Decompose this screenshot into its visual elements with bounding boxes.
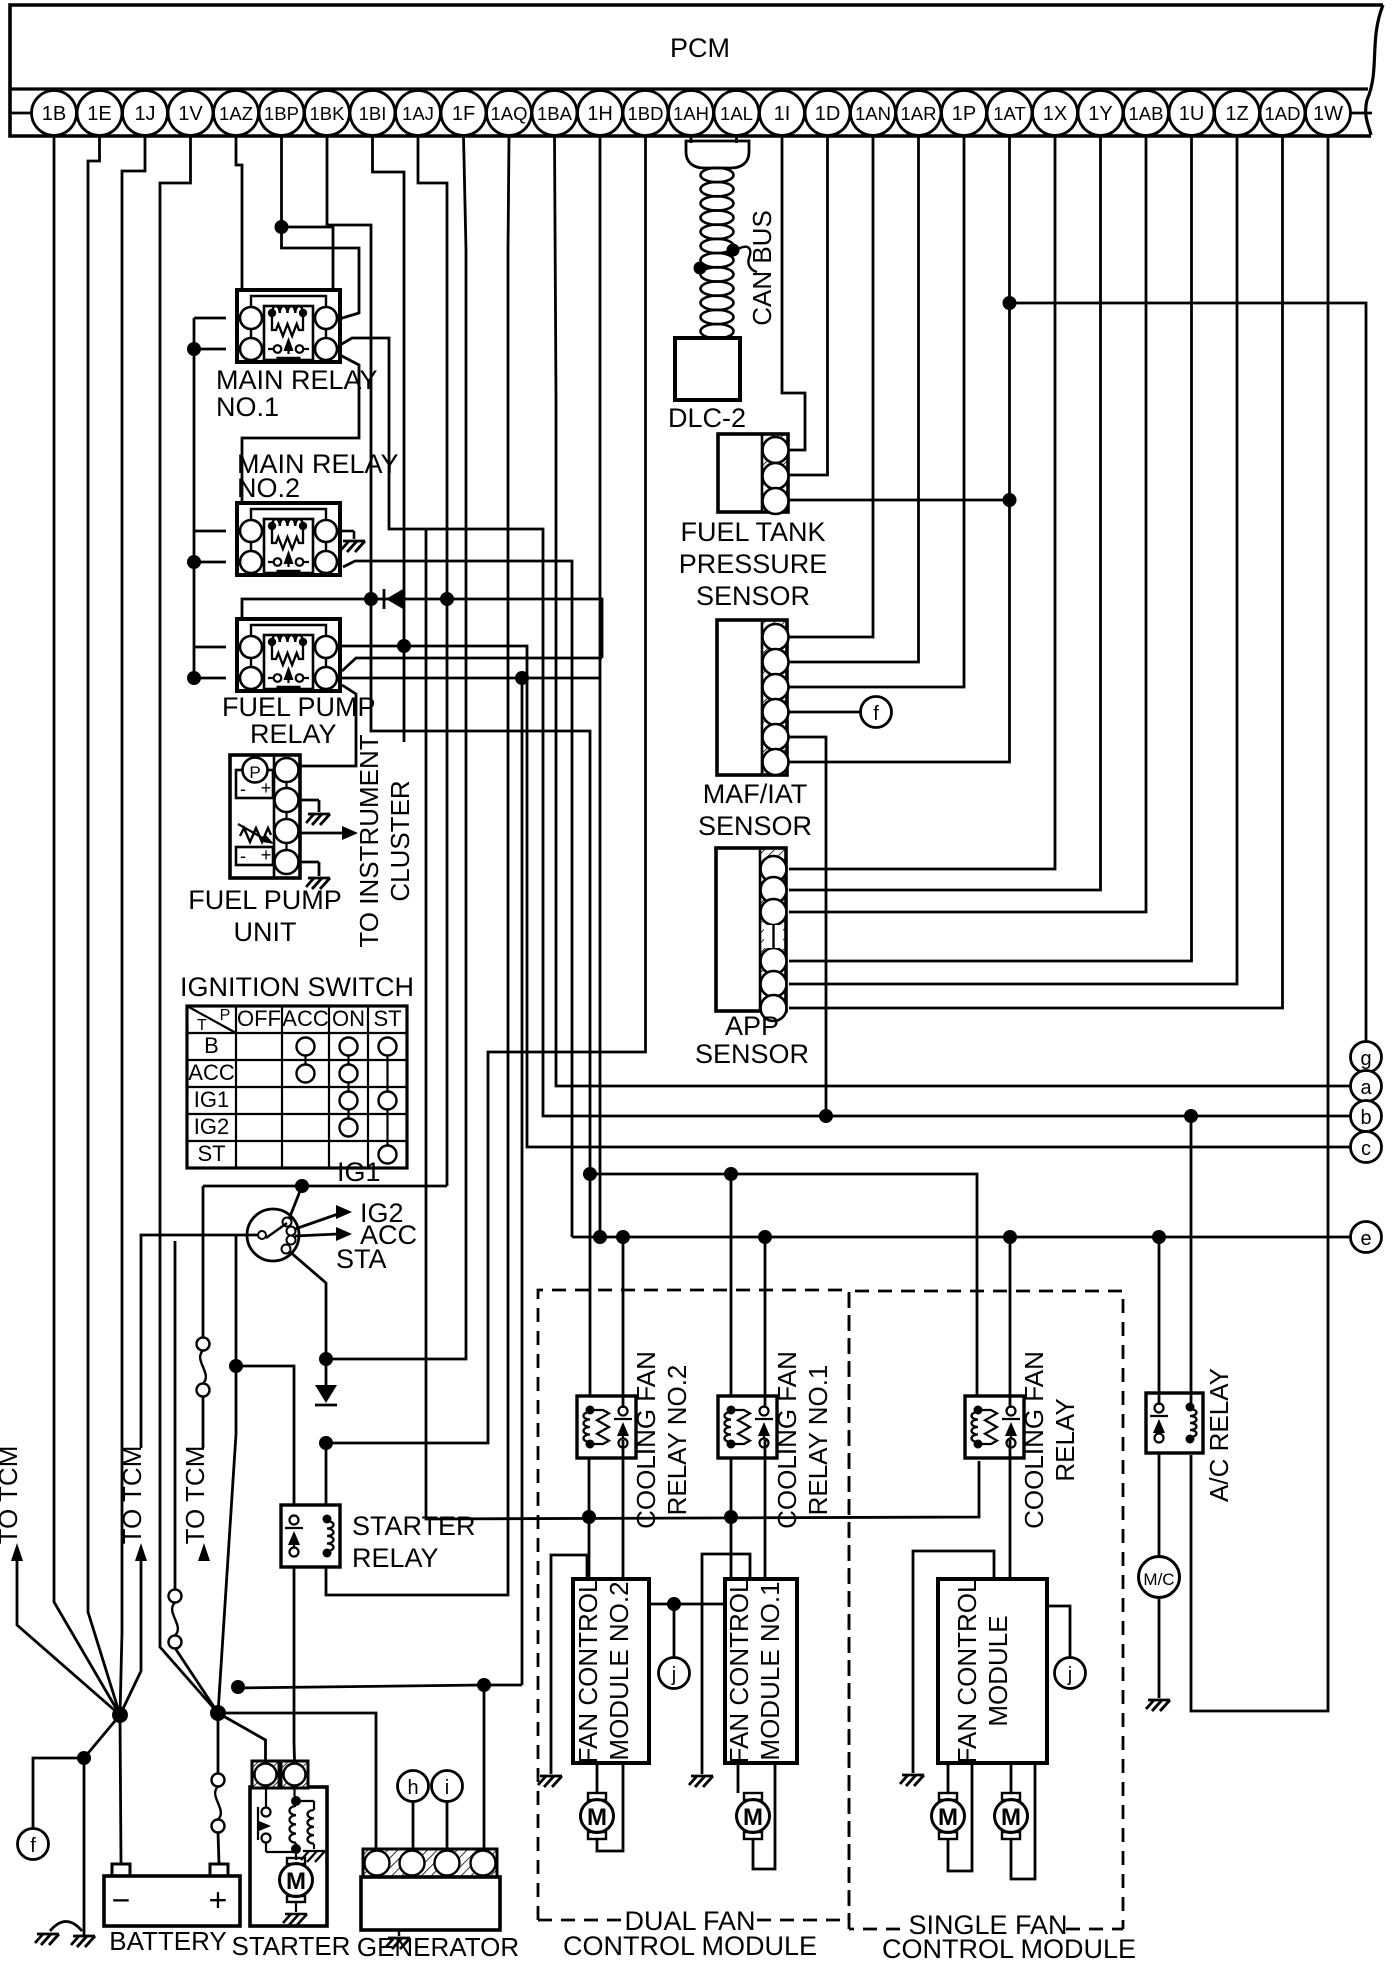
svg-text:1BK: 1BK (310, 103, 346, 124)
svg-text:1U: 1U (1179, 103, 1205, 125)
junction 1BI fuel pump relay line (397, 639, 411, 653)
junction FP relay LB (187, 671, 201, 685)
svg-text:RELAY: RELAY (352, 1543, 439, 1573)
svg-text:RELAY: RELAY (1050, 1398, 1080, 1481)
junction 1AT fuel tank line (1003, 493, 1017, 507)
svg-text:NO.2: NO.2 (237, 473, 300, 503)
svg-text:1AH: 1AH (673, 103, 709, 124)
svg-text:a: a (1360, 1077, 1372, 1099)
svg-text:IGNITION SWITCH: IGNITION SWITCH (180, 972, 414, 1002)
wire 1B to battery junction (54, 136, 120, 1715)
relay2 ground stub (340, 530, 354, 533)
svg-text:M: M (938, 1804, 958, 1831)
wire relay2 switch bottom to module (622, 1440, 625, 1579)
svg-text:1W: 1W (1313, 103, 1343, 125)
diode symbol (386, 589, 403, 609)
node j circle (659, 1658, 690, 1689)
svg-text:FUEL PUMP: FUEL PUMP (222, 692, 376, 722)
stub fuel pump relay LT (194, 646, 226, 649)
wire FP output drop (521, 678, 524, 1685)
svg-text:-: - (240, 846, 246, 866)
svg-text:TO TCM: TO TCM (180, 1446, 210, 1545)
junction MAF5 b line (819, 1109, 833, 1123)
PCM module box (1366, 5, 1383, 135)
junction J1 (112, 1707, 128, 1723)
node f circle (861, 697, 892, 728)
main relay NO.2 (237, 503, 340, 575)
junction 1AT to node g (1003, 296, 1017, 310)
wire 1F to STA line (326, 136, 466, 1359)
module2 motor (588, 1793, 606, 1800)
cooling fan relay NO.1 (718, 1396, 777, 1458)
wire 1BI to instrument cluster line (373, 136, 405, 742)
MC compressor clutch (1139, 1557, 1180, 1598)
fan relay coil feed line (590, 1174, 977, 1395)
svg-text:ON: ON (332, 1006, 365, 1031)
svg-text:COOLING FAN: COOLING FAN (631, 1351, 661, 1529)
APP sensor (760, 848, 786, 1011)
wire J2 to starter (218, 1713, 266, 1761)
stub relay2 LB (194, 561, 226, 564)
IG2 arrow (295, 1214, 338, 1229)
svg-text:1P: 1P (952, 103, 976, 125)
stub fuel pump relay LB (194, 677, 226, 680)
wire TCM3 fuse (202, 1186, 205, 1337)
node c circle (1351, 1132, 1382, 1163)
IG1 line (203, 1185, 447, 1188)
wire module1 motor loop (737, 1763, 740, 1793)
junction 1BK diode line (364, 592, 378, 606)
svg-text:RELAY: RELAY (250, 719, 337, 749)
wire 1I to fuel tank pressure sensor pin1 (782, 136, 805, 450)
node e line (572, 1236, 1351, 1239)
svg-text:M: M (286, 1868, 306, 1895)
svg-text:1AB: 1AB (1129, 103, 1164, 124)
wire TCM1 to junction1 (17, 1561, 120, 1715)
single module motor A (939, 1793, 957, 1800)
wire 1X to APP pin1 (789, 136, 1055, 869)
svg-text:+: + (261, 778, 272, 798)
svg-text:MODULE NO.1: MODULE NO.1 (755, 1581, 785, 1760)
svg-text:MODULE NO.2: MODULE NO.2 (604, 1581, 634, 1760)
wire MC to ground (1158, 1598, 1161, 1698)
wire 1AT to MAF pin6 (789, 136, 1010, 762)
svg-text:1BI: 1BI (359, 103, 387, 124)
single fan module dashed box (849, 1291, 1123, 1929)
node h circle (398, 1771, 429, 1802)
fuel pump unit pin3 arrow to cluster (298, 832, 346, 835)
MAF/IAT sensor (762, 620, 787, 775)
svg-text:ACC: ACC (188, 1060, 235, 1085)
fuel tank pressure sensor (762, 434, 788, 512)
DLC-2 connector (675, 338, 740, 400)
wire single motor B loop (1010, 1763, 1013, 1793)
svg-text:j: j (1067, 1664, 1072, 1686)
junction e relay1 switch (758, 1230, 772, 1244)
svg-text:1H: 1H (587, 103, 613, 125)
wire FP relay RB lower (340, 677, 600, 680)
svg-text:i: i (445, 1777, 449, 1799)
A/C relay (1146, 1393, 1203, 1453)
svg-text:TO TCM: TO TCM (117, 1446, 147, 1545)
svg-text:UNIT: UNIT (234, 917, 297, 947)
wire J2 to generator line (218, 1713, 376, 1849)
svg-text:f: f (30, 1835, 36, 1857)
svg-text:A/C RELAY: A/C RELAY (1204, 1368, 1234, 1502)
junction J2 (210, 1705, 226, 1721)
junction bus relay1 (724, 1510, 738, 1524)
STA wire (289, 1251, 326, 1392)
svg-text:h: h (407, 1777, 418, 1799)
svg-text:MAF/IAT: MAF/IAT (703, 779, 808, 809)
wire MAF pin4 to node f (789, 711, 860, 714)
wire 1BA to node a (555, 136, 1352, 1086)
diode line (242, 599, 602, 658)
wire relay1 switch top (764, 1237, 767, 1408)
svg-text:1AT: 1AT (993, 103, 1026, 124)
fuel pump relay (237, 619, 340, 691)
svg-text:1BP: 1BP (264, 103, 299, 124)
svg-text:PCM: PCM (670, 33, 730, 63)
cooling fan relay NO.2 (577, 1396, 636, 1458)
STA diode (315, 1385, 337, 1403)
fan control module NO.2 box (573, 1579, 649, 1763)
wire single relay switch top (1009, 1237, 1012, 1408)
svg-text:MAIN RELAY: MAIN RELAY (216, 365, 378, 395)
junction 1BP (275, 220, 289, 234)
module2 ground loop (551, 1555, 587, 1774)
wire 1AJ to ignition IG1 line (418, 136, 447, 1186)
wire 1AD to APP pin6 (789, 136, 1283, 1008)
node f circle bottom (18, 1829, 49, 1860)
junction bus relay2 (582, 1510, 596, 1524)
svg-text:FUEL PUMP: FUEL PUMP (188, 885, 342, 915)
junction e relay2 switch (616, 1230, 630, 1244)
svg-text:B: B (204, 1033, 219, 1058)
wire MAF pin5 to node b (789, 737, 826, 1116)
junction STA diode bottom (319, 1436, 333, 1450)
junction relay2 LB (187, 555, 201, 569)
svg-text:STARTER: STARTER (232, 1931, 351, 1961)
svg-text:P: P (249, 763, 260, 782)
wire 1Y to APP pin2 (789, 136, 1101, 890)
wire 485 to generator (483, 1685, 486, 1849)
node j2 circle (1055, 1658, 1086, 1689)
wire module2 motor loop (596, 1763, 599, 1793)
svg-text:ST: ST (197, 1141, 225, 1166)
svg-text:FAN CONTROL: FAN CONTROL (724, 1579, 754, 1764)
starter relay (281, 1505, 340, 1567)
svg-text:APP: APP (725, 1011, 779, 1041)
rotary B line (141, 1235, 258, 1448)
wire FP relay RB upper (342, 658, 602, 671)
junction e AC relay switch (1152, 1230, 1166, 1244)
svg-text:FUEL TANK: FUEL TANK (680, 517, 825, 547)
wire J1 to ground/f dot (84, 1715, 120, 1935)
svg-text:TO INSTRUMENT: TO INSTRUMENT (354, 734, 384, 947)
relay left feed rail (193, 318, 196, 675)
fuel pump unit pin2 ground (298, 799, 319, 802)
wire J2 up (218, 1366, 236, 1713)
svg-text:1D: 1D (815, 103, 841, 125)
fan control module NO.1 box (725, 1579, 797, 1763)
junction FP output drop (515, 671, 529, 685)
svg-text:P: P (220, 1007, 231, 1024)
junction 236 (229, 1359, 243, 1373)
svg-text:b: b (1360, 1107, 1371, 1129)
fuel pump unit (230, 755, 300, 878)
svg-text:+: + (261, 845, 272, 865)
wire 1AB to APP pin3 (789, 136, 1146, 912)
wire STA to starter relay coil (325, 1443, 328, 1505)
svg-text:-: - (240, 779, 246, 799)
svg-text:M: M (1001, 1804, 1021, 1831)
wire single motor A loop (947, 1763, 950, 1793)
svg-text:1AN: 1AN (855, 103, 891, 124)
wire 1BD to starter circuit (326, 136, 646, 1443)
battery (104, 1876, 240, 1926)
svg-text:IG1: IG1 (337, 1157, 381, 1187)
single module motor B (1002, 1793, 1020, 1800)
single fan module box (938, 1579, 1047, 1763)
wire relay2 coil bottom to module (588, 1458, 591, 1579)
svg-text:1AL: 1AL (720, 103, 753, 124)
wire relay1 RB to node b (340, 338, 1351, 1116)
svg-text:SENSOR: SENSOR (695, 1039, 809, 1069)
wire J1 to battery minus (120, 1715, 121, 1864)
fuse to junction2 (174, 1241, 177, 1589)
node b circle (1351, 1101, 1382, 1132)
svg-text:TO TCM: TO TCM (0, 1446, 23, 1545)
wire 1BK long route (327, 136, 590, 1395)
svg-text:BATTERY: BATTERY (109, 1926, 227, 1956)
cooling fan relay single (965, 1396, 1024, 1458)
wire f dot to node f (33, 1758, 84, 1828)
junction e single relay switch (1003, 1230, 1017, 1244)
wire FP relay RT to node c (340, 646, 1351, 1147)
svg-text:COOLING FAN: COOLING FAN (772, 1351, 802, 1529)
svg-text:g: g (1360, 1048, 1371, 1070)
svg-text:1AR: 1AR (901, 103, 937, 124)
wire AC switch to MC (1158, 1453, 1161, 1556)
wire FP relay to fuel pump unit (299, 685, 356, 766)
stub relay2 LT (194, 530, 226, 533)
node e circle (1351, 1222, 1382, 1253)
svg-text:1Y: 1Y (1088, 103, 1112, 125)
svg-text:1AD: 1AD (1265, 103, 1301, 124)
wire J2 to battery plus fuse (217, 1713, 220, 1773)
svg-text:1E: 1E (87, 103, 111, 125)
wire relay1 coil bottom to module (730, 1458, 733, 1579)
svg-text:1Z: 1Z (1225, 103, 1248, 125)
junction 1H on e line (593, 1230, 607, 1244)
svg-text:MODULE: MODULE (983, 1615, 1013, 1726)
svg-text:COOLING FAN: COOLING FAN (1019, 1351, 1049, 1529)
svg-text:STARTER: STARTER (352, 1511, 476, 1541)
svg-text:1AJ: 1AJ (402, 103, 434, 124)
wire 1AR to MAF pin2 (789, 136, 919, 662)
junction coil feed no1 (724, 1167, 738, 1181)
svg-text:STA: STA (336, 1244, 387, 1274)
svg-text:FAN CONTROL: FAN CONTROL (952, 1579, 982, 1764)
svg-text:1BA: 1BA (537, 103, 573, 124)
j tap line (649, 1603, 725, 1606)
junction coil feed no2 (583, 1167, 597, 1181)
ignition rotary switch (247, 1209, 299, 1261)
wire 1AN to MAF pin1 (789, 136, 873, 637)
junction STA line (319, 1352, 333, 1366)
svg-text:c: c (1361, 1138, 1371, 1160)
wire AC switch top (1158, 1237, 1161, 1405)
wire starter relay switch to starter (293, 1568, 296, 1761)
svg-text:ACC: ACC (282, 1006, 329, 1031)
module1 motor (744, 1793, 762, 1800)
ground arc pair (50, 1922, 82, 1932)
svg-text:1AQ: 1AQ (490, 103, 527, 124)
j tap single (1047, 1606, 1070, 1657)
svg-text:1B: 1B (42, 103, 66, 125)
svg-text:j: j (671, 1664, 676, 1686)
svg-text:T: T (197, 1017, 207, 1034)
CAN BUS twisted pair (686, 141, 749, 168)
wire TCM2 to junction1 (120, 1561, 141, 1715)
wire 1W to A/C relay coil (1191, 136, 1328, 1711)
wire 236 to starter relay switch (236, 1366, 294, 1505)
svg-text:CAN BUS: CAN BUS (747, 210, 777, 326)
wire relay1 RB step to relay2 (242, 355, 359, 502)
svg-text:+: + (209, 1882, 228, 1918)
svg-text:M/C: M/C (1143, 1570, 1174, 1589)
wire fuel tank pin3 line (789, 499, 1010, 502)
wire 1V (160, 136, 218, 1713)
wire 1H to node e line (599, 136, 602, 1237)
svg-text:1BD: 1BD (628, 103, 664, 124)
svg-text:IG1: IG1 (194, 1087, 229, 1112)
wire relay2 switch top (622, 1237, 625, 1408)
svg-text:CONTROL MODULE: CONTROL MODULE (563, 1931, 817, 1961)
junction relay1 LB (187, 342, 201, 356)
wire 1AH twisted pair (690, 136, 693, 143)
wire relay1 switch bottom to module (764, 1440, 767, 1579)
PCM connector pin row (10, 112, 31, 115)
wire 1BP branch to relay top (282, 227, 334, 292)
svg-text:RELAY NO.1: RELAY NO.1 (803, 1365, 833, 1516)
svg-text:1J: 1J (134, 103, 155, 125)
wire 236 up to rotary line (235, 1235, 238, 1366)
svg-text:M: M (587, 1804, 607, 1831)
svg-text:CLUSTER: CLUSTER (385, 780, 415, 901)
svg-text:1X: 1X (1043, 103, 1067, 125)
svg-text:1AZ: 1AZ (219, 103, 253, 124)
svg-text:GENERATOR: GENERATOR (357, 1932, 519, 1961)
svg-text:1I: 1I (774, 103, 791, 125)
fuel pump unit pin4 ground (298, 861, 319, 864)
svg-text:SENSOR: SENSOR (696, 581, 810, 611)
stub relay1 LB (194, 348, 226, 351)
svg-text:FAN CONTROL: FAN CONTROL (573, 1579, 603, 1764)
svg-text:PRESSURE: PRESSURE (679, 549, 828, 579)
wire 1J (120, 136, 145, 1715)
svg-text:1F: 1F (452, 103, 475, 125)
wire AC coil feed (1190, 1116, 1193, 1405)
dual fan module dashed box (538, 1290, 849, 1920)
svg-text:f: f (873, 703, 879, 725)
svg-text:CONTROL MODULE: CONTROL MODULE (882, 1934, 1136, 1961)
svg-text:−: − (112, 1882, 131, 1918)
node a circle (1351, 1071, 1382, 1102)
wire gen line 2 (236, 1685, 522, 1688)
generator (363, 1849, 497, 1877)
wire main relay bus drop (426, 529, 979, 1519)
wire 1AZ to main relay no.1 coil (236, 136, 242, 292)
single module ground loop (913, 1551, 994, 1773)
wire 1Z to APP pin5 (789, 136, 1237, 984)
main relay NO.1 (237, 290, 340, 362)
svg-text:e: e (1360, 1228, 1371, 1250)
wire 1P to MAF pin3 (789, 136, 964, 687)
svg-text:NO.1: NO.1 (216, 392, 279, 422)
starter (250, 1787, 327, 1926)
svg-text:IG2: IG2 (194, 1114, 229, 1139)
svg-text:SENSOR: SENSOR (698, 811, 812, 841)
wire relay2 RB to e line (343, 561, 572, 1237)
wire node g branch (1010, 303, 1367, 1042)
node g circle (1351, 1042, 1382, 1073)
svg-text:DLC-2: DLC-2 (668, 403, 746, 433)
node i circle (432, 1771, 463, 1802)
wire 1D to fuel tank pressure sensor pin2 (789, 136, 828, 475)
wire 1AL twisted pair (735, 136, 738, 143)
junction 1AJ diode line (440, 592, 454, 606)
svg-text:ST: ST (373, 1006, 401, 1031)
svg-text:1V: 1V (178, 103, 203, 125)
ACC arrow (295, 1234, 338, 1236)
svg-text:M: M (743, 1804, 763, 1831)
wire coil feed no1 vertical (730, 1174, 733, 1395)
wire 1E (88, 136, 120, 1715)
junction AC coil feed on b line (1184, 1109, 1198, 1123)
svg-text:OFF: OFF (237, 1006, 281, 1031)
svg-text:RELAY NO.2: RELAY NO.2 (662, 1365, 692, 1516)
wire 1U to APP pin4 (789, 136, 1192, 961)
module1 ground loop (702, 1554, 750, 1774)
wire 1BP (282, 136, 360, 319)
stub relay1 LT (194, 317, 226, 320)
wire single relay switch bottom to module (1009, 1440, 1012, 1579)
wire 1AQ to starter relay coil (326, 136, 509, 1595)
